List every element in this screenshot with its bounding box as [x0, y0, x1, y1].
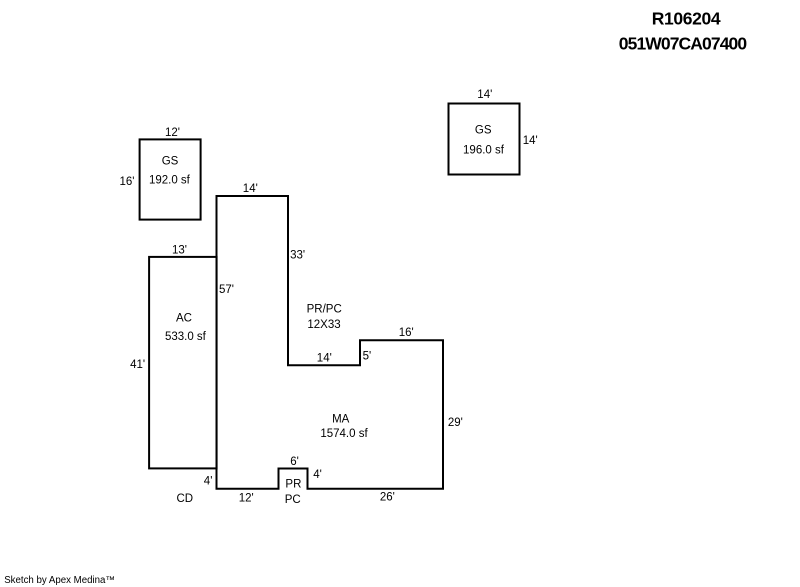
svg-text:29': 29': [448, 417, 463, 429]
svg-text:192.0 sf: 192.0 sf: [149, 175, 191, 187]
svg-text:GS: GS: [475, 125, 492, 137]
svg-text:12X33: 12X33: [307, 319, 340, 331]
main building MA/PR outline polygon: [217, 196, 444, 489]
svg-text:CD: CD: [176, 493, 193, 505]
svg-text:57': 57': [219, 284, 234, 296]
svg-text:PR/PC: PR/PC: [307, 304, 342, 316]
svg-text:PR: PR: [285, 479, 301, 491]
building AC rectangle outline: [149, 257, 217, 469]
svg-text:AC: AC: [176, 313, 192, 325]
svg-text:16': 16': [399, 327, 414, 339]
svg-text:4': 4': [204, 476, 213, 488]
svg-text:14': 14': [243, 183, 258, 195]
svg-text:5': 5': [363, 351, 372, 363]
svg-text:26': 26': [380, 492, 395, 504]
svg-text:MA: MA: [332, 414, 350, 426]
svg-text:6': 6': [290, 456, 299, 468]
svg-text:14': 14': [477, 89, 492, 101]
svg-text:PC: PC: [285, 494, 301, 506]
svg-text:14': 14': [317, 353, 332, 365]
svg-text:13': 13': [172, 245, 187, 257]
svg-text:533.0 sf: 533.0 sf: [165, 331, 207, 343]
svg-text:GS: GS: [162, 156, 179, 168]
svg-text:16': 16': [120, 176, 135, 188]
svg-text:196.0 sf: 196.0 sf: [463, 145, 505, 157]
svg-text:051W07CA07400: 051W07CA07400: [619, 34, 748, 54]
svg-text:12': 12': [165, 127, 180, 139]
svg-text:1574.0 sf: 1574.0 sf: [320, 428, 368, 440]
building GS (left) outline: [140, 139, 201, 219]
svg-text:R106204: R106204: [652, 9, 721, 29]
svg-text:4': 4': [313, 469, 322, 481]
svg-text:12': 12': [239, 492, 254, 504]
svg-text:41': 41': [130, 359, 145, 371]
svg-text:Sketch by Apex Medina™: Sketch by Apex Medina™: [4, 575, 115, 586]
building GS (upper right) outline: [449, 104, 520, 175]
svg-text:14': 14': [523, 135, 538, 147]
svg-text:33': 33': [290, 249, 305, 261]
